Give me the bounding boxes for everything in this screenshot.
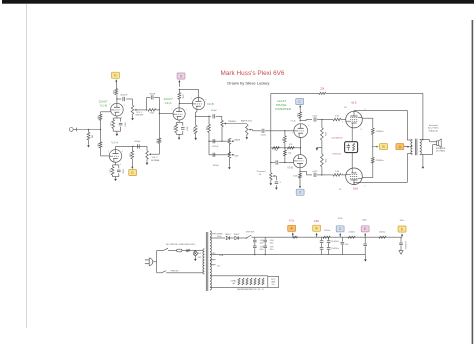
node B ps: [313, 225, 321, 231]
svg-text:BRIGHT: BRIGHT: [136, 115, 145, 117]
wire AC top a: [157, 250, 164, 252]
wire cap col2 stub: [264, 237, 266, 239]
svg-text:NORMAL: NORMAL: [151, 159, 161, 162]
capacitor .022uF bass: [213, 139, 215, 143]
wire normal riser: [158, 143, 160, 154]
svg-text:0.022: 0.022: [261, 135, 267, 137]
resistor rail choke: [293, 236, 298, 238]
wire V2-B cath drop: [195, 112, 197, 116]
resistor 5.6k V4 grid: [333, 118, 341, 121]
wire OT primary bot stub: [407, 153, 412, 155]
svg-text:.68uF: .68uF: [185, 126, 187, 132]
resistor 470 screen V5: [371, 157, 374, 163]
wire to cath cap: [118, 165, 120, 169]
junction mix node: [159, 109, 160, 110]
wire cap E dn: [400, 245, 402, 250]
svg-text:22k/2w: 22k/2w: [349, 232, 356, 234]
svg-text:PWR SW: PWR SW: [171, 270, 179, 272]
svg-text:6L6: 6L6: [351, 101, 356, 105]
svg-text:V2-A: V2-A: [165, 101, 173, 105]
scan: faint left page crease: [26, 4, 28, 328]
svg-text:.022uF: .022uF: [212, 165, 219, 167]
wire V2-A plate to V2-B grid: [179, 102, 192, 104]
svg-text:STBY SW: STBY SW: [246, 231, 254, 233]
svg-text:(8 OHMS): (8 OHMS): [436, 151, 445, 153]
node E ps: [398, 226, 406, 232]
capacitor 47uF b: [253, 246, 257, 248]
arrow to node B ps: [316, 233, 318, 237]
junction 220k bottom: [321, 174, 322, 175]
wire cap E stub: [400, 237, 402, 242]
svg-text:82k: 82k: [296, 114, 298, 117]
svg-text:100mA/100v: 100mA/100v: [331, 137, 342, 140]
wire V1-A cath T: [113, 164, 119, 166]
capacitor 47uF c: [263, 240, 267, 242]
ground chassis E: [399, 251, 403, 255]
wire PI cathodes: [299, 138, 301, 155]
junction channels join: [159, 113, 160, 114]
svg-text:100k: 100k: [293, 176, 297, 178]
svg-text:2: 2: [108, 150, 109, 152]
junction treble/bass: [221, 141, 222, 142]
svg-text:6.3v: 6.3v: [217, 266, 220, 268]
wire grid2 run: [279, 162, 293, 164]
wire bright cap lead r: [154, 96, 159, 98]
arrow to node D: [178, 80, 180, 87]
wire 100k to arrow: [131, 159, 133, 164]
ground presence: [270, 182, 273, 185]
capacitor 22uF d: [327, 248, 331, 250]
junction NFB takeoff: [422, 139, 423, 140]
svg-text:10k/2w: 10k/2w: [379, 232, 386, 234]
wire bright cap left up: [146, 97, 148, 110]
svg-text:471v: 471v: [289, 220, 295, 223]
wire screen drop a: [372, 118, 374, 128]
wire mid gnd stub: [228, 158, 230, 166]
junction plate/100k: [132, 146, 133, 147]
capacitor 22uF b: [320, 248, 324, 250]
svg-text:Drawn by Steve Luckey: Drawn by Steve Luckey: [227, 81, 269, 85]
wire cap col1 dn: [254, 248, 256, 254]
heater 6V6 6: [258, 278, 260, 285]
pot AMP'R VOL: [246, 124, 252, 134]
resistor 56k slope: [208, 124, 211, 132]
capacitor .68uF V1-A cathode: [117, 170, 121, 172]
wire OT primary top stub: [407, 139, 412, 141]
wire cap col4 dn: [328, 250, 330, 255]
tube V2-B 12AX7: [192, 98, 204, 110]
svg-text:220k: 220k: [324, 132, 326, 136]
wire V2A gnd stub: [178, 134, 180, 136]
wire AC bot a: [157, 272, 162, 274]
wire 2.7k down: [112, 129, 114, 132]
resistor 1M input: [87, 132, 90, 140]
wire V5 plate rise: [406, 154, 408, 183]
junction 220k top: [321, 119, 322, 120]
switch standby: [247, 235, 252, 238]
svg-text:Mark Huss's Plexi 6V6: Mark Huss's Plexi 6V6: [221, 70, 285, 77]
svg-text:100k: 100k: [128, 153, 130, 157]
wire V3-A plate stub: [299, 109, 301, 112]
wire cap D stub: [364, 237, 366, 243]
wire grid2 cap left: [271, 162, 275, 164]
pot Presence 5k: [270, 173, 276, 180]
transformer T1 secondary: [210, 231, 211, 290]
svg-text:.68uF: .68uF: [122, 169, 124, 175]
node D (V2 supply): [177, 73, 185, 79]
svg-text:Presence: Presence: [257, 170, 267, 173]
svg-text:AO-27 SE-8: AO-27 SE-8: [428, 127, 438, 130]
arrow to node A ps: [292, 232, 294, 236]
resistor 68k grid V1-A: [99, 142, 102, 148]
pilot lamp: [193, 251, 197, 255]
wire V4 screen: [362, 117, 373, 119]
svg-text:22uF: 22uF: [345, 244, 349, 246]
node E (V1-A supply): [129, 170, 137, 176]
wire cap dn V2A: [182, 131, 184, 135]
wire CT/ground line: [210, 254, 365, 256]
resistor 10k PI bias: [284, 150, 287, 156]
svg-text:SPEAKER: SPEAKER: [436, 147, 446, 150]
node D ps: [361, 226, 369, 232]
svg-text:6L6: 6L6: [353, 187, 358, 191]
wire V5 cathode up: [351, 153, 353, 168]
svg-text:10k: 10k: [274, 150, 277, 152]
wire cap col4 stub: [328, 237, 330, 240]
wire cap col2 dn: [264, 248, 266, 254]
wire V1-A cath join: [113, 176, 119, 178]
svg-text:470k: 470k: [156, 139, 158, 143]
ground pilot lamp: [194, 258, 197, 261]
wire presence wiper: [275, 175, 276, 177]
pot BASS: [228, 138, 234, 144]
wire screen drop d: [372, 163, 374, 178]
wire sec gnd stub: [422, 154, 424, 165]
resistor 5.6k V5 grid: [333, 174, 341, 177]
wire 1M dn: [284, 143, 286, 148]
wire V3-B plate out: [300, 170, 307, 172]
wire to 820 V2A: [175, 122, 177, 124]
wire mix res to node: [156, 109, 160, 111]
wire V2-A cathode dn: [178, 120, 180, 122]
ground OT secondary: [422, 166, 425, 169]
ground VOL1: [131, 117, 134, 120]
ground input 1M: [87, 144, 90, 147]
wire to 1M: [88, 130, 90, 133]
wire 220k gnd stub: [317, 146, 322, 148]
svg-text:1N4007: 1N4007: [225, 234, 231, 236]
junction lamp: [195, 250, 196, 251]
wire 10k to grid2 node: [284, 156, 286, 163]
capacitor .022uF mid: [213, 153, 215, 157]
wire cap col1 mid: [254, 242, 256, 245]
wire treble cap out: [216, 115, 222, 117]
wire 5.6k to V4 grid: [341, 119, 346, 121]
resistor 470k normal mix: [158, 138, 161, 144]
wire 1M to ground: [88, 140, 90, 145]
wire treble bottom dn: [221, 127, 223, 142]
svg-text:100k: 100k: [182, 94, 184, 98]
wire tonestack feed: [196, 115, 211, 117]
capacitor bias bypass: [347, 144, 350, 151]
wire cathode cap down: [120, 127, 122, 132]
wire V1-B plate up: [116, 95, 118, 104]
wire cath cap dn: [118, 173, 120, 176]
svg-text:6: 6: [205, 99, 206, 101]
svg-text:470pF: 470pF: [211, 110, 218, 112]
wire screen drop c: [372, 147, 374, 158]
capacitor 47uF a: [253, 240, 257, 242]
svg-text:1: 1: [122, 151, 123, 153]
svg-text:V1-B: V1-B: [100, 104, 107, 108]
svg-text:1M: 1M: [91, 135, 93, 138]
svg-text:INVERTER: INVERTER: [275, 107, 291, 111]
wire cap C dn: [341, 245, 343, 255]
arrow to node C ps: [339, 233, 341, 237]
svg-text:470: 470: [289, 144, 292, 146]
wire jog PI bottom: [306, 171, 308, 175]
svg-text:TREBLE: TREBLE: [228, 121, 237, 123]
pot VOL 1 BRIGHT: [131, 105, 137, 114]
wire between diodes: [230, 237, 234, 239]
tube V5 6L6: [346, 168, 363, 185]
wire 68k to grid corner: [100, 112, 102, 114]
wire to V1-B grid: [101, 111, 111, 113]
wire cap col2 mid: [264, 242, 266, 245]
junction gnd col1: [254, 254, 255, 255]
wire V2-B cathode dn: [196, 109, 198, 112]
svg-text:0.022: 0.022: [312, 171, 318, 173]
wire split down: [100, 130, 102, 142]
svg-text:470Ω/2w: 470Ω/2w: [376, 131, 385, 133]
resistor 10k tail: [272, 147, 279, 150]
svg-text:5: 5: [342, 121, 343, 123]
resistor 470 screen V4: [371, 128, 374, 135]
wire 82k dn: [299, 118, 301, 120]
svg-text:BASS: BASS: [235, 139, 241, 142]
wire cap col3 dn: [321, 250, 323, 255]
tube V3-A 12AX7: [294, 124, 308, 138]
resistor 22k/2w: [348, 236, 355, 238]
wire presence cap dn: [275, 185, 277, 186]
resistor 2.7k V1-B cathode: [112, 120, 115, 129]
tube V2-A 12AX7: [173, 108, 185, 120]
wire tap 5v: [210, 259, 216, 261]
wire VOL1 wiper: [137, 109, 147, 111]
node C (PI supply return): [296, 189, 304, 195]
capacitor 0.022 to V4: [314, 117, 316, 121]
capacitor PI grid2: [276, 160, 278, 164]
resistor 100k V2-A plate: [178, 93, 181, 100]
junction 56k tap: [208, 116, 209, 117]
svg-text:WHT: WHT: [198, 257, 201, 259]
wire V1-B cathode down: [116, 116, 118, 118]
wire V4 plate run: [354, 109, 407, 111]
ground AMPR VOL: [246, 136, 249, 139]
resistor 820 V2-A cathode: [175, 124, 178, 133]
svg-text:450v: 450v: [260, 242, 264, 244]
wire jack to input node: [76, 129, 100, 131]
ground presence cap: [275, 187, 278, 190]
wire AC top b: [168, 250, 177, 252]
svg-text:V3-A: V3-A: [291, 120, 296, 123]
wire V3-B plate dn: [299, 168, 301, 172]
wire main gnd stub: [364, 255, 366, 259]
wire NFB top run b: [326, 92, 423, 94]
junction bass row: [208, 141, 209, 142]
wire VOL2 wiper: [152, 153, 160, 155]
wire cap to 220k bottom: [317, 174, 333, 176]
wire V1-A plate up: [115, 146, 117, 149]
wire speaker return b: [433, 144, 437, 146]
capacitor 22uF c: [327, 241, 331, 243]
wire cathode join: [113, 130, 120, 132]
wire diode out: [238, 237, 246, 239]
wire heater rail top: [210, 275, 268, 277]
wire V1-A gnd stub: [115, 177, 117, 178]
wire presence gnd stub: [270, 180, 272, 182]
resistor 100k PI plate B: [299, 173, 302, 178]
wire 820 dn: [112, 175, 114, 177]
wire HT tap: [210, 237, 225, 239]
heater 12AX7 3: [246, 278, 248, 285]
svg-text:2.7k: 2.7k: [109, 122, 111, 126]
wire ampr wiper: [251, 129, 252, 131]
svg-text:V1-A: V1-A: [111, 140, 119, 144]
transformer T1 core: [206, 232, 208, 291]
wire 5.6k to V5 grid: [341, 174, 346, 176]
wire V2-B 100k dn: [195, 134, 197, 137]
wire OT primary CT stub: [410, 146, 413, 148]
resistor 470k bright mix: [148, 109, 156, 112]
svg-text:AC PWR SW: AC PWR SW: [166, 243, 177, 246]
resistor 470 tail: [287, 147, 294, 150]
svg-text:10k/2w: 10k/2w: [324, 230, 331, 232]
svg-text:22uF/500v: 22uF/500v: [331, 241, 339, 243]
svg-text:.022uF: .022uF: [212, 146, 219, 148]
wire to VOL2: [146, 146, 148, 150]
wire NFB riser: [422, 93, 424, 139]
svg-text:3: 3: [120, 164, 121, 166]
wire plate to coupling cap: [117, 98, 121, 100]
wire 100k to D node: [178, 89, 180, 92]
junction V1-B plate/cap: [116, 98, 117, 99]
wire to 2.7k: [112, 118, 114, 120]
wire to 100k down: [131, 146, 133, 150]
junction V3-B plate: [299, 171, 300, 172]
junction PI tail: [300, 147, 301, 148]
wire V2A cath join: [176, 133, 183, 135]
svg-text:BLK: BLK: [198, 253, 201, 255]
wire 10k stub dn: [284, 148, 286, 150]
resistor 220k V5 grid: [321, 154, 324, 166]
svg-text:0.022: 0.022: [312, 115, 318, 117]
resistor 1M PI grid: [284, 136, 287, 143]
svg-text:100k: 100k: [112, 90, 114, 94]
capacitor presence 0.1: [275, 182, 279, 184]
wire 220k mid a: [321, 140, 323, 154]
junction stby: [246, 237, 247, 238]
junction input split: [100, 129, 101, 130]
svg-text:1: 1: [308, 125, 309, 127]
capacitor 820pF: [138, 144, 140, 148]
capacitor .68uF V2-A cathode: [181, 128, 185, 130]
ground V2-A cathode: [178, 137, 181, 140]
resistor 100k V1-B plate: [115, 89, 118, 95]
node A (OT B+): [396, 144, 404, 150]
capacitor .68uF V1-B cathode: [119, 123, 123, 125]
junction PI grid: [284, 130, 285, 131]
pot VOL 2 NORMAL: [146, 151, 152, 159]
svg-text:22uF/450v: 22uF/450v: [404, 241, 406, 250]
svg-text:450v: 450v: [260, 249, 264, 251]
tube V3-B 12AX7: [293, 155, 306, 168]
wire treble pot stub: [221, 116, 223, 120]
junction input/1M: [88, 129, 89, 130]
svg-text:7: 7: [191, 98, 192, 100]
wire plate res to arrow: [115, 85, 117, 89]
wire V1-A cathode down: [115, 162, 117, 165]
wire V1-A plate run: [116, 145, 148, 147]
capacitor .0022uF: [123, 97, 125, 101]
wire V5 plate dn: [353, 182, 355, 184]
svg-text:270R/10w: 270R/10w: [332, 153, 342, 155]
tube V1-B 12AX7: [111, 103, 124, 116]
wire 220k top stub: [321, 120, 323, 128]
pot TREBLE: [221, 120, 227, 126]
svg-text:22uF/500v: 22uF/500v: [331, 248, 339, 250]
ground 220k mid: [316, 147, 319, 150]
svg-text:PL: PL: [262, 289, 264, 291]
svg-text:Hammond: Hammond: [429, 125, 438, 127]
wire tap 6.3v: [210, 264, 216, 266]
wire ampr jog: [252, 130, 254, 131]
svg-text:PILOT: PILOT: [271, 279, 276, 281]
switch AC power: [163, 248, 168, 250]
svg-text:.1: .1: [279, 182, 281, 184]
junction bright cap left: [146, 109, 147, 110]
wire VOL1 to gnd: [132, 114, 134, 117]
svg-text:68k: 68k: [97, 143, 99, 146]
node C (PI supply): [296, 99, 304, 105]
heater 12AX7 4: [250, 278, 252, 285]
wire D to V2-B plate run: [179, 88, 198, 90]
wire bass row: [209, 140, 229, 142]
wire 56k stub: [208, 116, 210, 124]
wire to PI cap: [253, 130, 261, 132]
svg-text:100k: 100k: [192, 128, 194, 132]
junction 1M tail: [284, 147, 285, 148]
wire sec to speaker: [429, 140, 431, 142]
wire V5 screen: [362, 177, 373, 179]
wire V2-A cath T: [176, 121, 183, 123]
wire down to VOL1: [132, 99, 134, 105]
resistor 270R bias: [353, 143, 355, 151]
node C ps: [336, 226, 344, 232]
arrow to node E bottom: [131, 164, 133, 169]
svg-text:6: 6: [124, 105, 125, 107]
resistor 82k PI plate A: [299, 112, 302, 118]
arrow to node E ps: [401, 233, 403, 237]
svg-text:MID: MID: [235, 156, 239, 158]
wire to cathode cap: [120, 118, 122, 122]
capacitor 0.022 to V5: [314, 173, 316, 177]
wire screen drop b: [372, 135, 374, 147]
wire heater rail bottom: [210, 286, 268, 288]
heater 12AX7 2: [242, 278, 244, 285]
wire normal riser top: [158, 113, 160, 138]
svg-text:3: 3: [364, 186, 365, 188]
